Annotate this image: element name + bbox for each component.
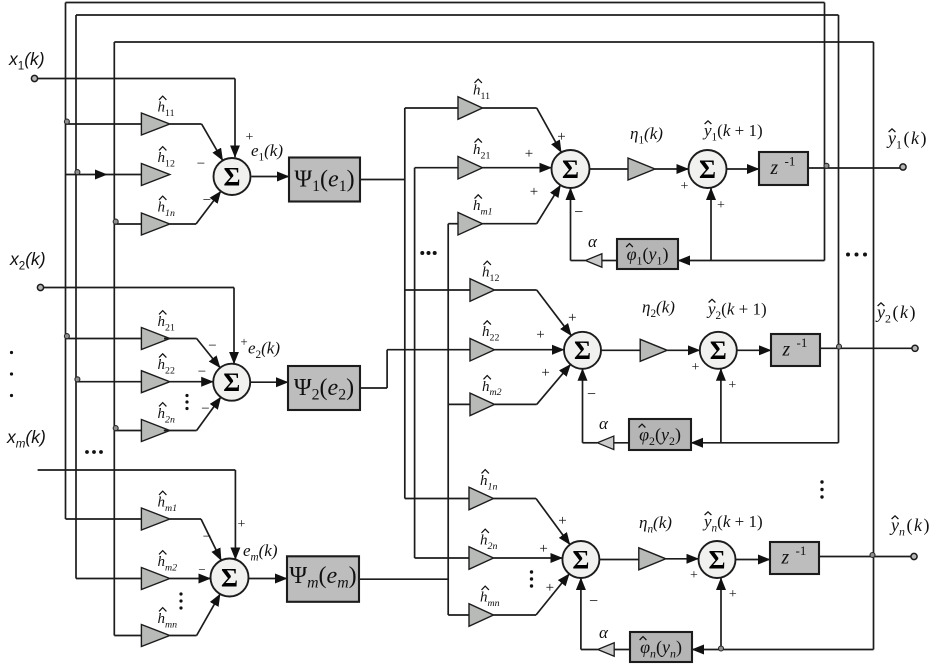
svg-text:Σ: Σ: [223, 368, 240, 397]
svg-text:-1: -1: [796, 543, 807, 558]
svg-text:ηn​(k): ηn​(k): [639, 513, 672, 535]
svg-text:α: α: [599, 414, 609, 433]
svg-text:−: −: [587, 386, 596, 403]
svg-text:+: +: [681, 179, 689, 194]
svg-text:φn​(yn​): φn​(yn​): [640, 637, 682, 660]
svg-text:−: −: [203, 193, 211, 209]
svg-text:+: +: [568, 310, 576, 326]
svg-text:+: +: [525, 146, 533, 162]
svg-text:α: α: [599, 623, 609, 642]
svg-text:Σ: Σ: [572, 545, 589, 574]
svg-text:e1​(k): e1​(k): [251, 141, 283, 163]
svg-text:z: z: [781, 548, 790, 569]
svg-text:+: +: [536, 327, 544, 343]
svg-text:y1​ ( k ): y1​ ( k ): [886, 128, 926, 151]
svg-text:−: −: [208, 338, 216, 354]
svg-text:φ2​(y2​): φ2​(y2​): [639, 425, 681, 448]
svg-text:+: +: [558, 513, 566, 529]
svg-text:x2​(k): x2​(k): [9, 249, 46, 272]
svg-text:Σ: Σ: [224, 162, 241, 191]
svg-text:+: +: [728, 378, 736, 393]
svg-text:−: −: [201, 401, 209, 417]
svg-text:z: z: [782, 340, 791, 361]
svg-text:+: +: [240, 334, 247, 349]
svg-text:−: −: [574, 204, 583, 221]
svg-text:+: +: [690, 568, 698, 583]
svg-text:+: +: [530, 184, 538, 200]
svg-text:e2​(k): e2​(k): [248, 339, 280, 361]
svg-text:Σ: Σ: [562, 155, 579, 184]
svg-text:+: +: [557, 129, 565, 145]
svg-text:z: z: [770, 158, 779, 179]
svg-text:y2​ ( k ): y2​ ( k ): [875, 302, 915, 325]
svg-text:+: +: [238, 517, 246, 532]
svg-text:yn​(k + 1): yn​(k + 1): [702, 512, 763, 534]
svg-text:−: −: [203, 529, 211, 545]
svg-text:y1​(k + 1): y1​(k + 1): [702, 121, 763, 143]
svg-text:Σ: Σ: [574, 336, 591, 365]
svg-text:-1: -1: [797, 335, 808, 350]
svg-text:−: −: [198, 562, 205, 577]
svg-text:y2​(k + 1): y2​(k + 1): [706, 300, 767, 322]
svg-text:−: −: [198, 364, 206, 380]
svg-text:+: +: [729, 587, 737, 602]
svg-text:Σ: Σ: [699, 155, 716, 184]
svg-text:η1​(k): η1​(k): [630, 124, 663, 146]
svg-text:+: +: [692, 360, 700, 375]
svg-text:−: −: [589, 593, 598, 610]
svg-text:+: +: [541, 365, 549, 381]
svg-text:η2​(k): η2​(k): [642, 298, 675, 320]
svg-text:yn​ ( k ): yn​ ( k ): [889, 515, 929, 538]
svg-text:−: −: [197, 156, 205, 172]
svg-text:-1: -1: [785, 154, 796, 169]
svg-text:+: +: [546, 580, 554, 596]
svg-text:+: +: [717, 198, 725, 213]
svg-text:em​(k): em​(k): [243, 541, 278, 563]
svg-text:x1​(k): x1​(k): [8, 49, 45, 72]
svg-text:α: α: [588, 232, 598, 251]
svg-text:Σ: Σ: [221, 563, 238, 592]
svg-text:Σ: Σ: [709, 545, 726, 574]
svg-text:φ1​(y1​): φ1​(y1​): [627, 244, 669, 267]
svg-text:+: +: [539, 541, 547, 557]
svg-text:Σ: Σ: [710, 336, 727, 365]
svg-text:xm​(k): xm​(k): [6, 427, 46, 450]
